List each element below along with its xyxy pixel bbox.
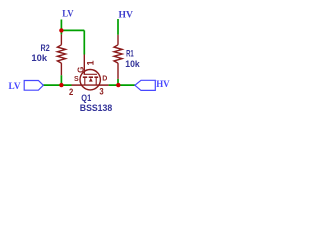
wire gate net horizontal: [61, 29, 84, 31]
Q1 drain pin: [99, 84, 109, 86]
svg-text:R2: R2: [41, 43, 50, 53]
wire LV rail top: [60, 20, 62, 31]
junction node LV bottom: [59, 83, 63, 87]
connector HV (right): [135, 80, 155, 90]
Q1 internal source-drain line: [81, 84, 99, 86]
resistor R1: [114, 35, 122, 79]
svg-text:LV: LV: [9, 81, 22, 91]
svg-text:HV: HV: [156, 79, 170, 89]
svg-text:2: 2: [69, 87, 73, 98]
wire R2 bottom: [60, 75, 62, 85]
svg-text:R1: R1: [126, 49, 134, 59]
svg-text:Q1: Q1: [81, 93, 91, 103]
Q1 source pin: [72, 84, 82, 86]
svg-text:1: 1: [85, 60, 95, 65]
wire LV connector to Q1 source: [43, 84, 71, 86]
svg-text:S: S: [74, 76, 79, 83]
Q1 channel dashes: [83, 76, 98, 78]
Q1 source stub: [84, 77, 86, 85]
svg-text:LV: LV: [62, 10, 73, 20]
wire gate net vertical: [83, 30, 85, 54]
wire R1 bottom: [117, 79, 119, 85]
junction node HV bottom: [116, 83, 120, 87]
svg-text:HV: HV: [119, 10, 134, 20]
Q1 body arrow: [89, 78, 93, 82]
Q1 gate bar: [84, 73, 97, 75]
svg-text:D: D: [102, 76, 107, 83]
svg-text:BSS138: BSS138: [80, 103, 112, 113]
resistor R2: [57, 34, 65, 75]
svg-text:10k: 10k: [31, 53, 48, 63]
svg-text:G: G: [77, 67, 86, 73]
wire HV rail top: [117, 19, 119, 35]
wire Q1 drain to HV connector: [109, 84, 135, 86]
wire LV junction to R2: [60, 30, 62, 34]
connector LV (left): [24, 81, 43, 91]
Q1 gate pin: [83, 55, 85, 75]
svg-text:3: 3: [99, 87, 103, 98]
svg-text:10k: 10k: [125, 59, 140, 69]
Q1 drain stub: [95, 77, 97, 85]
junction node LV rail: [59, 28, 63, 32]
transistor Q1 body circle: [80, 70, 100, 90]
